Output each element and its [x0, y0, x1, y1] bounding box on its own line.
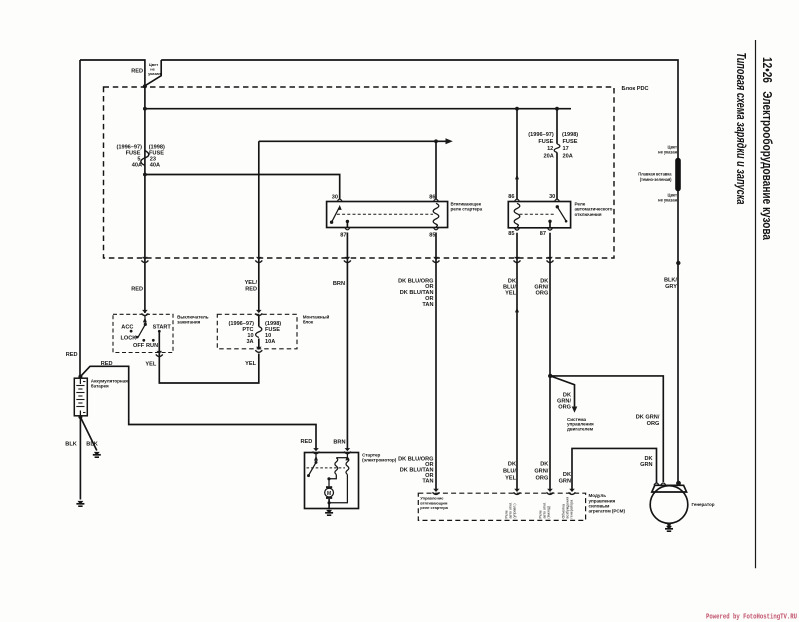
fuse F12/F17 symbol — [554, 144, 560, 153]
wire: battery negative to ground 1 (diagonal) — [80, 417, 96, 451]
starter switch — [315, 454, 317, 463]
wire through fuse block — [258, 316, 260, 327]
svg-text:DK GRN/: DK GRN/ — [636, 415, 660, 421]
wire: motor to ground — [328, 499, 330, 510]
svg-text:не указан: не указан — [658, 198, 677, 203]
wire: arrow stub to engine control system — [550, 376, 574, 408]
generator G box top — [652, 485, 687, 492]
node: junction dot DK GRN/ORG branch — [548, 374, 552, 378]
svg-text:GRY: GRY — [665, 284, 677, 290]
svg-text:(электромотор): (электромотор) — [362, 458, 397, 463]
wire: branch to relay1 pin30 — [145, 175, 340, 200]
svg-text:20A: 20A — [544, 154, 554, 160]
fuse F10/PTC symbol — [256, 327, 262, 338]
PDC boundary connectors on bottom dashed edge — [141, 257, 148, 263]
coil B hold-in winding — [346, 458, 349, 475]
wire: drop to relay1 pin86 — [435, 141, 437, 199]
starter solenoid windings — [346, 454, 348, 458]
relay K1 name label — [451, 201, 483, 211]
relay K2 pin 86 bump — [514, 199, 519, 201]
starter mechanical dashed link — [307, 467, 346, 469]
svg-text:YEL: YEL — [145, 362, 156, 368]
svg-text:ORG: ORG — [647, 421, 660, 427]
fuse F5/F23 value labels — [116, 145, 165, 169]
node: motor bottom junction dot — [328, 501, 331, 504]
svg-text:BLK: BLK — [65, 442, 77, 448]
svg-text:BRN: BRN — [333, 281, 345, 287]
wire: battery negative to ground 2 — [79, 417, 81, 500]
svg-text:Powered by FotoHostingTV.RU: Powered by FotoHostingTV.RU — [706, 614, 797, 622]
svg-text:20A: 20A — [563, 154, 573, 160]
svg-text:батарея: батарея — [91, 382, 109, 388]
svg-text:BLK: BLK — [86, 442, 98, 448]
svg-text:блок: блок — [303, 318, 314, 324]
wire: YEL/RED drop x=258.8 — [258, 141, 260, 310]
node: junction dot x=436 — [434, 139, 438, 143]
svg-text:BLU/: BLU/ — [503, 468, 516, 474]
svg-text:(управл.): (управл.) — [513, 503, 517, 518]
svg-text:RED: RED — [131, 287, 143, 293]
generator body circle — [650, 486, 688, 524]
relay K1 starter solenoid relay box — [327, 202, 448, 228]
ground G2 — [76, 501, 84, 506]
labels DK GRN near generator — [640, 456, 652, 468]
wire: top bus left segment — [80, 60, 145, 313]
svg-text:30: 30 — [549, 194, 555, 200]
svg-text:(1998): (1998) — [562, 132, 578, 138]
svg-text:LOCK: LOCK — [121, 336, 137, 342]
relay K2 auto shutdown relay box — [508, 202, 570, 228]
svg-text:YEL: YEL — [505, 290, 516, 296]
labels DK BLU/ORG block near starter — [398, 456, 433, 484]
svg-text:не указан: не указан — [658, 150, 677, 155]
relay K1 pin labels — [332, 195, 436, 239]
fuse block value labels — [228, 321, 281, 345]
wire: DK BLU relay1 85 down to PCM — [435, 233, 437, 492]
node: splice dot right wire — [676, 261, 680, 265]
relay K2 pin 87 contact — [548, 220, 551, 228]
svg-text:86: 86 — [429, 195, 435, 201]
wire to motor — [328, 479, 330, 487]
starter name label — [362, 453, 397, 463]
ignition switch position labels — [121, 325, 172, 349]
PCM entry connectors — [433, 489, 440, 495]
labels DK GRN/ORG near PCM — [534, 461, 548, 481]
coil A pull-in winding — [335, 458, 338, 475]
relay K2 pin 85 bump — [514, 228, 519, 230]
generator ground G4 — [667, 523, 671, 527]
node: starter coil junction dot — [327, 477, 330, 480]
relay K1 pin 85 bump — [433, 228, 438, 230]
wire: drop to relay2 pin86 — [516, 109, 518, 200]
wire: battery feed left vertical — [79, 60, 81, 377]
wire: DK GRN/ORG relay2 87 down to PCM — [549, 233, 551, 491]
battery BAT1 — [74, 375, 87, 416]
svg-text:(темно-зеленая): (темно-зеленая) — [640, 177, 672, 182]
PCM name label — [589, 493, 626, 513]
svg-text:86: 86 — [508, 194, 514, 200]
starter M1 box — [305, 453, 359, 509]
svg-text:GRN: GRN — [559, 479, 571, 485]
node: junction dot bus x=517 — [515, 107, 519, 111]
fuse block exit connector bottom — [255, 347, 262, 353]
relay K2 name label — [575, 202, 613, 217]
svg-text:GRN: GRN — [640, 462, 652, 468]
relay K1 pin 86 bump — [433, 199, 438, 201]
svg-text:зажигания: зажигания — [177, 319, 201, 324]
ignition switch position contacts — [130, 330, 133, 333]
wire: START output YEL — [159, 331, 258, 383]
svg-text:Генератор: Генератор — [692, 502, 715, 507]
svg-text:генератора: генератора — [570, 500, 574, 519]
svg-text:FUSE: FUSE — [538, 139, 553, 145]
labels DK GRN near PCM entry4 — [559, 472, 571, 485]
node: color-not-specified splice flag — [145, 60, 161, 86]
relay K2 dashed centerline — [520, 213, 555, 215]
relay K1 coil — [433, 203, 439, 226]
relay K1 pin 87 contact — [346, 220, 349, 228]
svg-text:85: 85 — [508, 231, 514, 237]
svg-text:(1996–97): (1996–97) — [528, 132, 554, 138]
PDC block dashed outline — [104, 87, 615, 258]
wire: relay feed line y=141.3 with end arrow — [259, 140, 448, 142]
wire: YEL/RED to fuse block — [245, 280, 258, 293]
ignition switch arm — [143, 317, 147, 322]
svg-text:ORG: ORG — [536, 476, 549, 482]
svg-text:RED: RED — [131, 69, 143, 75]
wire: top bus right segment — [161, 60, 678, 482]
relay K1 pin 30 bump — [337, 199, 342, 201]
svg-text:START: START — [153, 325, 172, 331]
motor M armature — [325, 486, 334, 499]
svg-text:RED: RED — [245, 287, 257, 293]
wire: branch to generator via x=663.3 — [550, 376, 663, 482]
svg-text:указан: указан — [148, 71, 161, 76]
svg-text:12: 12 — [547, 146, 553, 152]
svg-text:реле стартера: реле стартера — [420, 505, 448, 510]
relay K2 switch arm — [556, 205, 568, 222]
svg-text:ACC: ACC — [121, 325, 133, 331]
ignition switch entry connector — [141, 310, 148, 316]
node: junction dot bus x=557 — [555, 107, 559, 111]
wire: DK BLU/YEL relay2 85 down to PCM — [516, 233, 518, 491]
svg-text:Типовая схема зарядки и запуск: Типовая схема зарядки и запуска — [734, 53, 748, 205]
svg-text:87: 87 — [540, 231, 546, 237]
svg-text:FUSE: FUSE — [563, 139, 578, 145]
node: junction dot bus/main vertical — [143, 107, 147, 111]
svg-text:BLK/: BLK/ — [664, 278, 677, 284]
labels color not specified (right) — [658, 145, 677, 155]
svg-text:TAN: TAN — [422, 479, 433, 485]
fuse block (Montazhny blok) dashed box — [217, 314, 297, 349]
PCM pin function label 1 — [420, 496, 448, 510]
svg-text:30: 30 — [332, 195, 338, 201]
PCM pin function label 2 (rotated) — [505, 502, 517, 519]
svg-text:Монтажный: Монтажный — [303, 313, 330, 319]
ground G3 starter — [325, 510, 333, 515]
fuse F12/F17 value labels — [528, 132, 578, 160]
svg-text:M: M — [327, 491, 331, 497]
ground G1 — [93, 452, 101, 457]
relay K2 pin 87 bump — [547, 228, 552, 230]
label color-not-specified top — [148, 62, 161, 76]
svg-text:ORG: ORG — [558, 405, 571, 411]
relay K2 pin labels — [508, 194, 555, 237]
svg-text:40A: 40A — [132, 163, 142, 169]
fuse block entry connector top — [255, 310, 262, 316]
svg-text:ORG: ORG — [536, 290, 549, 296]
relay K1 switch arm — [330, 205, 342, 224]
svg-text:RED: RED — [300, 439, 312, 445]
svg-text:40A: 40A — [150, 163, 160, 169]
fuse F5/F23 symbol on main vertical — [141, 151, 149, 166]
svg-text:85: 85 — [429, 233, 435, 239]
svg-text:DK: DK — [508, 461, 516, 467]
PCM pin function label 3 (rotated) — [539, 502, 551, 519]
svg-text:агрегатом (PCM): агрегатом (PCM) — [589, 509, 626, 514]
svg-text:TAN: TAN — [422, 302, 433, 308]
svg-text:RED: RED — [101, 361, 113, 367]
label DK GRN/ORG near generator — [636, 415, 660, 428]
svg-text:DK: DK — [563, 472, 571, 478]
node: splice dot at PDC top — [143, 84, 147, 88]
PCM pin function label 4 (rotated) — [562, 497, 574, 519]
ignition switch dashed box — [113, 314, 173, 352]
fusible link on right wire — [675, 161, 681, 189]
label BLK/GRY — [664, 278, 677, 291]
svg-text:17: 17 — [563, 146, 569, 152]
battery name label — [91, 378, 128, 388]
svg-text:YEL: YEL — [245, 361, 256, 367]
svg-text:отключения: отключения — [575, 212, 602, 217]
page title separator line — [755, 40, 757, 568]
relay K1 pin 87 bottom bump — [345, 228, 350, 230]
node: up arrow on pin86 drop — [515, 174, 519, 179]
svg-text:3A: 3A — [246, 339, 253, 345]
relay K1 dashed centerline — [337, 213, 433, 215]
wire: RED branch battery to starter — [80, 366, 316, 449]
wire: DK GRN loop PCM to generator — [572, 448, 657, 491]
fuse block name label — [303, 313, 330, 324]
generator output terminal dot — [676, 481, 681, 486]
label: engine control system — [567, 417, 594, 432]
svg-text:RED: RED — [66, 352, 78, 358]
svg-text:реле стартера: реле стартера — [451, 207, 483, 212]
PCM module dashed box — [418, 493, 585, 520]
svg-text:87: 87 — [340, 233, 346, 239]
svg-text:10A: 10A — [265, 339, 275, 345]
svg-text:двигателем: двигателем — [567, 426, 594, 431]
svg-text:(выход): (выход) — [547, 506, 551, 519]
wire: BRN relay1 87 down to starter — [346, 233, 348, 450]
svg-text:RUN: RUN — [146, 343, 158, 349]
wire: drop to relay2 pin30 through fuse — [556, 109, 558, 144]
svg-text:GRN/: GRN/ — [534, 468, 548, 474]
node: battery top junction dot — [78, 375, 82, 379]
relay K2 coil — [514, 203, 520, 226]
svg-text:12•26 Электрооборудование ку: 12•26 Электрооборудование кузова — [760, 57, 775, 241]
svg-text:DK: DK — [540, 461, 548, 467]
ignition switch name label — [177, 314, 209, 324]
svg-text:BRN: BRN — [333, 439, 345, 445]
node: battery bottom junction dot — [78, 415, 82, 419]
labels DK BLU/YEL near PCM — [503, 461, 517, 481]
svg-text:Блок PDC: Блок PDC — [622, 86, 649, 92]
relay K2 pin 30 bump — [554, 199, 559, 201]
svg-text:YEL/: YEL/ — [245, 280, 258, 286]
svg-text:OFF: OFF — [133, 343, 145, 349]
node: junction dot branch pin30 — [143, 173, 147, 177]
svg-text:YEL: YEL — [505, 476, 516, 482]
starter entry connectors — [313, 448, 320, 454]
wire: relay feed bus y=108.7 — [145, 108, 571, 110]
node: arrowhead right end — [446, 138, 453, 144]
